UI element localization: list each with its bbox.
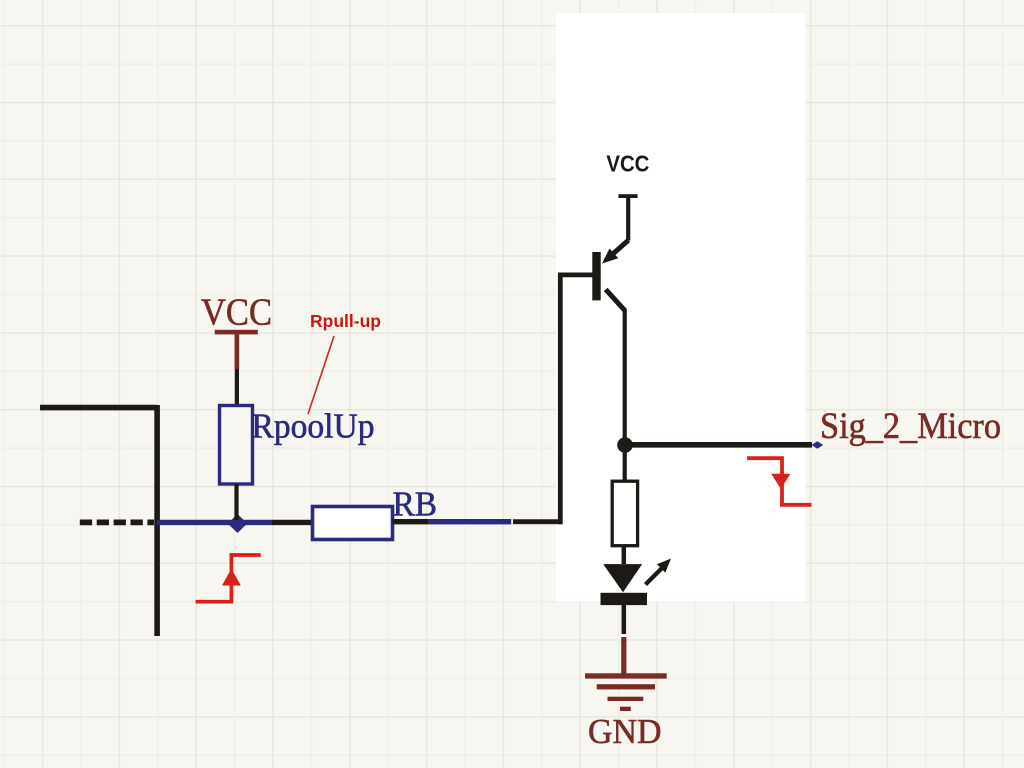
wire: VCC stem to emitter (626, 198, 630, 241)
transistor Q1 emitter line (613, 240, 628, 254)
transistor Q1 emitter arrow (PNP) (602, 249, 618, 264)
wire: collector down to junction (623, 309, 627, 440)
transistor Q1 base bar (592, 252, 600, 300)
falling edge arrow head (771, 474, 790, 489)
ground GND bars (585, 673, 667, 711)
junction: navy diamond node (228, 514, 248, 533)
power VCC bar (left, maroon) (215, 330, 258, 335)
svg-text:Sig_2_Micro: Sig_2_Micro (820, 406, 1001, 447)
resistor RpoolUp body (220, 406, 253, 485)
wire: LED to ground (black part) (622, 605, 627, 634)
LED D1 cathode bar (601, 593, 648, 605)
wire: navy segment left of junction (157, 520, 272, 525)
wire: black segment up to base (513, 275, 593, 525)
LED D1 triangle (603, 564, 642, 592)
wire: left bus L-shape (40, 405, 157, 636)
wire: dashed no-connect stub (80, 520, 154, 526)
LED D1 emission arrow (646, 568, 663, 585)
port tip diamond (navy) (812, 441, 824, 448)
wire: junction to output port (630, 442, 812, 448)
callout line (red) (308, 336, 334, 414)
wire: navy segment (429, 519, 512, 524)
wire: junction to load resistor (623, 450, 627, 481)
wire: RpoolUp to junction (234, 484, 238, 520)
rising edge arrow head (222, 569, 241, 586)
svg-text:VCC: VCC (201, 292, 272, 334)
svg-text:GND: GND (588, 712, 662, 751)
wire: maroon stub to ground (621, 637, 626, 674)
white sheet region (556, 13, 806, 602)
resistor (collector load) body (612, 481, 637, 546)
wire: maroon VCC stem (235, 334, 240, 369)
junction: black dot node (617, 437, 633, 453)
rising edge symbol (red) (196, 553, 261, 602)
svg-text:VCC: VCC (606, 151, 649, 177)
transistor Q1 collector line (606, 289, 625, 310)
wire: resistor to LED (622, 546, 627, 564)
falling edge symbol (red) (747, 456, 811, 505)
resistor RB body (313, 507, 393, 540)
svg-text:RB: RB (393, 485, 438, 524)
wire: black stub right of RB (393, 519, 429, 524)
svg-text:Rpull-up: Rpull-up (310, 311, 381, 331)
wire: black stem to RpoolUp (235, 369, 239, 406)
power VCC bar (top, black) (618, 194, 637, 198)
svg-text:RpoolUp: RpoolUp (252, 407, 375, 446)
wire: black segment to RB (272, 520, 313, 525)
